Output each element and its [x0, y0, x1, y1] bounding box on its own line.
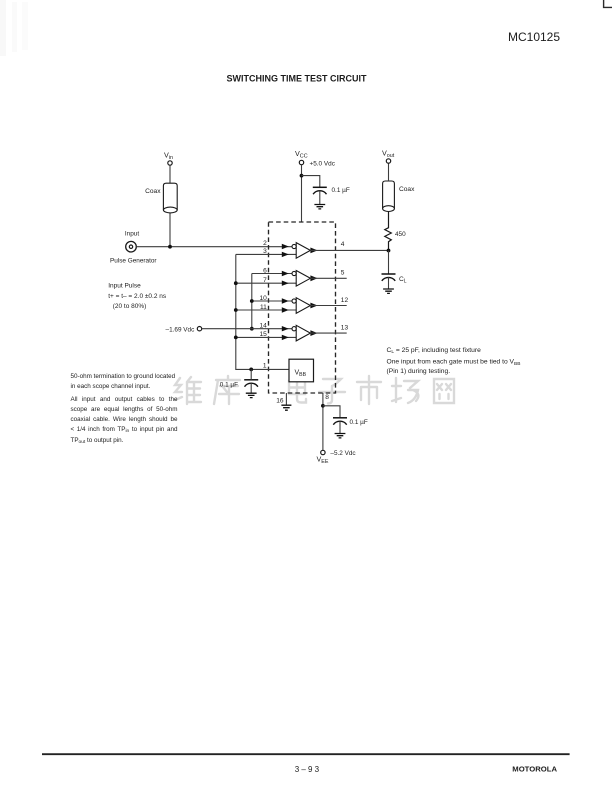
-1.69Vdc bus (pins 6,10,14) [251, 274, 253, 329]
capacitor C2 0.1uF on VBB [220, 369, 258, 393]
wire pin 7 [236, 282, 296, 284]
junction bus pin10 [250, 299, 254, 303]
svg-text:VEE: VEE [317, 455, 329, 466]
wire pin 15 [236, 336, 296, 338]
junction bus pin11 [234, 308, 238, 312]
junction VCC bypass [300, 174, 304, 178]
svg-text:0.1 µF: 0.1 µF [332, 187, 350, 194]
svg-text:16: 16 [276, 398, 284, 405]
wire Vin to input junction [169, 165, 171, 247]
watermark weiku.com glyphs (drawn as light strokes) [175, 376, 454, 404]
svg-text:MOTOROLA: MOTOROLA [512, 765, 557, 774]
svg-text:10: 10 [259, 295, 267, 302]
footer rule [42, 753, 570, 755]
resistor R1 450 ohm [385, 212, 406, 251]
svg-text:Input: Input [125, 231, 139, 238]
node VEE terminal [317, 450, 357, 465]
ground pin16 [281, 405, 291, 410]
svg-text:12: 12 [341, 297, 349, 304]
node -1.69 Vdc terminal [166, 326, 202, 333]
ground below C2 [246, 393, 257, 397]
gate U1a [282, 243, 318, 259]
ground below CL [383, 289, 394, 293]
svg-text:2: 2 [263, 240, 267, 247]
junction output node [387, 249, 391, 253]
wire gate2 output pin 5 [310, 269, 346, 278]
note input pulse [108, 283, 167, 310]
svg-text:MC10125: MC10125 [508, 30, 560, 44]
wire VCC down into DUT box [301, 165, 303, 222]
node VCC terminal [295, 149, 336, 167]
svg-text:–1.69 Vdc: –1.69 Vdc [166, 326, 196, 333]
wire pin 3 [236, 253, 296, 255]
svg-text:Vout: Vout [382, 149, 395, 160]
svg-text:SWITCHING TIME TEST CIRCUIT: SWITCHING TIME TEST CIRCUIT [227, 74, 367, 84]
svg-text:Pulse Generator: Pulse Generator [110, 258, 157, 265]
svg-text:VCC: VCC [295, 149, 308, 160]
note CL [387, 347, 521, 375]
wire pin 11 [236, 309, 296, 311]
node Vin terminal [164, 151, 173, 166]
input BNC connector [110, 231, 157, 265]
coax TPin cylinder [145, 183, 177, 213]
page corner crop mark [604, 0, 612, 7]
svg-text:t+ = t– = 2.0 ±0.2 ns: t+ = t– = 2.0 ±0.2 ns [108, 293, 167, 300]
svg-text:3: 3 [263, 248, 267, 255]
node Vout terminal [382, 149, 395, 164]
svg-text:One input from each gate must: One input from each gate must be tied to… [387, 359, 521, 367]
svg-text:(20 to 80%): (20 to 80%) [113, 303, 147, 310]
svg-text:14: 14 [259, 323, 267, 330]
capacitor C3 0.1uF [333, 418, 368, 434]
svg-text:8: 8 [325, 394, 329, 401]
svg-text:5: 5 [341, 269, 345, 276]
VBB bus (pins 3,7,11,15 to pin 1) [236, 254, 289, 369]
wire input connector to pin 2 [136, 246, 292, 248]
svg-text:–5.2 Vdc: –5.2 Vdc [330, 450, 356, 457]
coax TPout cylinder [383, 181, 415, 212]
footer MOTOROLA [512, 765, 557, 774]
junction bus pin15 [234, 336, 238, 340]
svg-text:0.1 µF: 0.1 µF [220, 381, 238, 388]
svg-text:CL: CL [399, 276, 407, 284]
DUT dashed box [269, 222, 336, 393]
VBB reference box [289, 359, 314, 382]
wire gate3 output pin 12 [310, 297, 348, 306]
header part number MC10125 [508, 30, 560, 44]
note 50-ohm termination paragraph [71, 372, 178, 391]
junction pin8 bypass [321, 404, 325, 408]
gate U1b [282, 271, 318, 287]
wire Vout to coax [388, 163, 390, 181]
wire gate1 output pin 4 [310, 241, 388, 251]
capacitor C1 0.1uF [313, 187, 350, 205]
note cables paragraph [71, 395, 178, 448]
svg-text:+5.0 Vdc: +5.0 Vdc [310, 160, 336, 167]
svg-text:Input Pulse: Input Pulse [108, 283, 141, 290]
svg-text:Coax: Coax [399, 186, 415, 193]
svg-text:6: 6 [263, 267, 267, 274]
svg-text:15: 15 [259, 331, 267, 338]
svg-text:450: 450 [395, 231, 406, 238]
junction bus pin7 [234, 281, 238, 285]
title SWITCHING TIME TEST CIRCUIT [227, 74, 367, 84]
svg-text:Vin: Vin [164, 151, 173, 162]
junction pin1 bypass [249, 368, 253, 372]
pin 16 ground stub [276, 393, 286, 405]
svg-text:CL = 25 pF, including test fix: CL = 25 pF, including test fixture [387, 347, 482, 355]
svg-text:(Pin 1) during testing.: (Pin 1) during testing. [387, 368, 451, 375]
ground below C1 [314, 205, 325, 209]
pin labels left [259, 240, 267, 369]
wire gate4 output pin 13 [310, 325, 348, 334]
wire pin 14 [202, 328, 292, 330]
capacitor CL [382, 274, 407, 289]
svg-text:7: 7 [263, 277, 267, 284]
wire pin 10 [252, 300, 292, 302]
svg-text:3–93: 3–93 [295, 765, 322, 774]
junction input/coax [168, 245, 172, 249]
pin 8 stub to VEE [323, 393, 329, 450]
scan streak top-left [0, 0, 28, 56]
junction bus pin14 [250, 327, 254, 331]
footer page number [295, 765, 322, 774]
svg-text:13: 13 [341, 325, 349, 332]
svg-text:11: 11 [260, 304, 267, 311]
svg-text:Coax: Coax [145, 188, 161, 195]
wire pin 6 [252, 273, 292, 275]
ground below C3 [335, 434, 346, 438]
gate U1d [282, 325, 318, 341]
svg-text:4: 4 [341, 241, 345, 248]
wire pin8 to capacitor C3 [323, 406, 340, 418]
wire VCC to capacitor C1 [302, 176, 320, 187]
svg-text:0.1 µF: 0.1 µF [350, 419, 368, 426]
svg-text:1: 1 [263, 363, 267, 370]
gate U1c [282, 298, 318, 314]
wire output node to CL [388, 251, 390, 275]
